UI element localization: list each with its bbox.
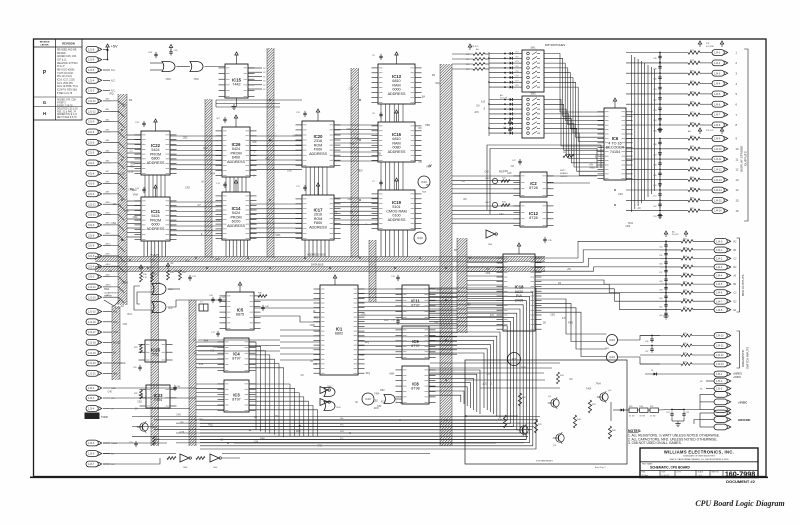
scattered junction dots bbox=[121, 57, 661, 444]
svg-text:C40: C40 bbox=[150, 259, 155, 262]
svg-text:R18: R18 bbox=[466, 64, 469, 66]
svg-text:CR8: CR8 bbox=[515, 85, 519, 87]
display strobe rows 1-8 bbox=[626, 50, 738, 133]
wires RAM to data bus bbox=[305, 230, 407, 257]
svg-text:3J1-8: 3J1-8 bbox=[88, 234, 95, 237]
svg-text:7404: 7404 bbox=[212, 346, 218, 349]
svg-text:10K: 10K bbox=[180, 422, 185, 425]
svg-text:D-16-797: D-16-797 bbox=[662, 475, 670, 477]
left connector tags group 3 bbox=[85, 385, 118, 467]
svg-text:IC16: IC16 bbox=[392, 132, 402, 137]
svg-text:IC19: IC19 bbox=[392, 200, 402, 205]
svg-text:PB6: PB6 bbox=[131, 162, 136, 165]
svg-text:2=1: 2=1 bbox=[699, 475, 702, 477]
svg-text:+5V: +5V bbox=[292, 135, 297, 138]
svg-text:ADDRESS: ADDRESS bbox=[227, 224, 245, 228]
svg-text:1J1-15: 1J1-15 bbox=[88, 311, 96, 314]
svg-text:R/W: R/W bbox=[296, 430, 301, 433]
svg-text:DELETED C25 5.2V: DELETED C25 5.2V bbox=[57, 109, 78, 111]
svg-text:470: 470 bbox=[490, 314, 495, 317]
svg-text:CR2: CR2 bbox=[132, 189, 137, 192]
svg-text:7404: 7404 bbox=[154, 398, 162, 402]
svg-text:47 1W: 47 1W bbox=[650, 416, 656, 418]
svg-text:3J1-10: 3J1-10 bbox=[88, 214, 96, 217]
svg-text:IC25: IC25 bbox=[151, 347, 161, 352]
svg-text:3401 N. CALIFORNIA CHICAGO,: 3401 N. CALIFORNIA CHICAGO, ILL. 60618 E… bbox=[670, 458, 730, 461]
svg-text:1J4-10: 1J4-10 bbox=[714, 148, 722, 151]
gate IC10 round A bbox=[418, 176, 430, 194]
capacitor C15 bbox=[188, 275, 196, 281]
svg-text:1J4-21: 1J4-21 bbox=[716, 345, 724, 348]
gate round 7404 bbox=[362, 393, 374, 405]
IC25 555 timer bbox=[133, 340, 173, 371]
svg-text:VMA: VMA bbox=[275, 234, 281, 237]
svg-text:1J3-5: 1J3-5 bbox=[88, 442, 95, 445]
svg-text:+5V: +5V bbox=[111, 45, 118, 49]
svg-text:8T98: 8T98 bbox=[411, 387, 419, 391]
svg-text:H: H bbox=[43, 111, 46, 116]
svg-text:VMA: VMA bbox=[133, 194, 139, 197]
svg-text:CR2: CR2 bbox=[287, 169, 292, 172]
IC22 5424 PROM 6800 bbox=[135, 119, 177, 175]
pull-up resistors R16-R19 bbox=[466, 44, 489, 71]
svg-text:GROUND: GROUND bbox=[738, 418, 750, 422]
IC12 8T28 bus driver bbox=[514, 202, 554, 227]
svg-text:1J4-6: 1J4-6 bbox=[714, 103, 721, 106]
svg-text:1J4-8: 1J4-8 bbox=[716, 309, 723, 312]
svg-text:R17: R17 bbox=[466, 59, 469, 61]
frame bottom heavy line bbox=[30, 476, 768, 478]
left CPU-control connector tags group 2 bbox=[86, 309, 126, 377]
svg-text:2J1-9: 2J1-9 bbox=[88, 121, 95, 124]
svg-text:BA: BA bbox=[129, 99, 133, 102]
svg-text:CR2: CR2 bbox=[348, 198, 353, 201]
svg-text:DIAGNOSTIC: DIAGNOSTIC bbox=[741, 350, 745, 367]
gate round 7408 right of PIA bbox=[508, 353, 527, 370]
svg-text:1J3-7: 1J3-7 bbox=[88, 463, 95, 466]
svg-text:1J4-2: 1J4-2 bbox=[716, 258, 723, 261]
svg-text:SWITCH INPUTS: SWITCH INPUTS bbox=[746, 347, 750, 369]
svg-text:470: 470 bbox=[562, 317, 567, 320]
svg-text:CB2: CB2 bbox=[349, 88, 354, 91]
resistor R22 bbox=[134, 344, 142, 353]
svg-text:1J1-3: 1J1-3 bbox=[88, 90, 95, 93]
+5V pullups strobe group 2 bbox=[688, 128, 724, 134]
inverter pair bottom left bbox=[167, 454, 240, 469]
svg-text:IC24: IC24 bbox=[609, 338, 615, 342]
svg-text:IC4: IC4 bbox=[233, 351, 240, 356]
OR gate 7432 B bbox=[190, 62, 225, 82]
svg-text:CB2: CB2 bbox=[137, 400, 142, 403]
svg-text:CR2: CR2 bbox=[174, 270, 179, 273]
svg-text:R12: R12 bbox=[128, 313, 133, 316]
svg-text:IRQ: IRQ bbox=[109, 93, 113, 96]
svg-text:R11 470: R11 470 bbox=[471, 46, 479, 48]
svg-text:160-7998: 160-7998 bbox=[725, 470, 755, 479]
svg-text:CR3: CR3 bbox=[515, 61, 519, 63]
data bus horizontal band bbox=[95, 267, 545, 272]
svg-text:R12: R12 bbox=[199, 363, 204, 366]
svg-text:+5V: +5V bbox=[589, 164, 594, 167]
svg-text:IC5: IC5 bbox=[237, 307, 244, 312]
svg-text:VMA: VMA bbox=[426, 165, 432, 168]
svg-text:1J4-3: 1J4-3 bbox=[716, 266, 723, 269]
svg-text:1J4-6: 1J4-6 bbox=[716, 292, 723, 295]
svg-text:1J4-7: 1J4-7 bbox=[714, 114, 721, 117]
display strobe rows 9-16 bbox=[626, 136, 739, 219]
svg-text:CR7: CR7 bbox=[515, 80, 519, 82]
svg-text:IC6: IC6 bbox=[612, 136, 619, 141]
bus staircase buffers to lower right bbox=[200, 288, 536, 449]
svg-text:R's 4.7K: R's 4.7K bbox=[500, 98, 508, 100]
resistor R33 enable bbox=[560, 152, 574, 178]
svg-text:7404: 7404 bbox=[374, 393, 380, 396]
svg-text:IRQ: IRQ bbox=[314, 317, 318, 320]
wires PROM columns vertical bbox=[144, 175, 248, 257]
IC20 2316 ROM F000 bbox=[296, 109, 341, 167]
svg-text:R56: R56 bbox=[640, 406, 643, 408]
svg-text:4J1-5: 4J1-5 bbox=[88, 183, 95, 186]
svg-text:1J5-1: 1J5-1 bbox=[716, 373, 723, 376]
IC9 8T97 buffer bbox=[396, 326, 436, 359]
svg-text:R30, 31 & R40, 74: R30, 31 & R40, 74 bbox=[57, 111, 77, 113]
capacitor C45 bbox=[218, 297, 226, 303]
svg-text:C37: C37 bbox=[645, 351, 648, 353]
vertical bus band x152 bbox=[151, 254, 159, 446]
svg-text:1J4-13: 1J4-13 bbox=[714, 179, 722, 182]
svg-text:IC15: IC15 bbox=[232, 77, 242, 82]
svg-text:CB2: CB2 bbox=[111, 222, 116, 225]
svg-text:C52: C52 bbox=[123, 323, 128, 326]
buffer gate 4049 right bbox=[486, 230, 497, 246]
capacitor C60 bbox=[173, 385, 181, 391]
svg-text:CR2: CR2 bbox=[515, 56, 519, 58]
svg-text:ALL: ALL bbox=[500, 94, 503, 97]
svg-text:7404: 7404 bbox=[595, 383, 601, 386]
svg-text:IC29 P.N. REV 5&8: IC29 P.N. REV 5&8 bbox=[57, 90, 77, 92]
svg-text:SW1: SW1 bbox=[531, 48, 537, 50]
IC2 8T28 bus driver bbox=[514, 172, 554, 197]
svg-text:REV ECO #2066: REV ECO #2066 bbox=[57, 70, 75, 72]
wires central band to IC2/IC12 bbox=[452, 176, 520, 223]
resistor R26 bbox=[134, 390, 142, 399]
svg-text:1J1-8: 1J1-8 bbox=[88, 48, 95, 51]
svg-text:BA: BA bbox=[123, 103, 127, 106]
svg-text:47 1W: 47 1W bbox=[640, 416, 646, 418]
svg-text:7404: 7404 bbox=[210, 173, 216, 176]
svg-text:C60: C60 bbox=[659, 298, 662, 300]
IC26 5424 PROM 6400 bbox=[216, 115, 257, 177]
drawing border frame bbox=[34, 39, 767, 477]
svg-text:1J4-12: 1J4-12 bbox=[714, 169, 722, 172]
svg-text:R/W: R/W bbox=[437, 288, 442, 291]
svg-text:1J4-2: 1J4-2 bbox=[714, 62, 721, 65]
svg-text:1J3-2: 1J3-2 bbox=[88, 387, 95, 390]
svg-text:IC24: IC24 bbox=[609, 355, 615, 359]
svg-text:N.C: N.C bbox=[111, 464, 115, 466]
svg-text:2J1-10: 2J1-10 bbox=[88, 100, 96, 103]
svg-text:BA: BA bbox=[422, 96, 426, 99]
svg-text:1J1-21: 1J1-21 bbox=[88, 372, 96, 375]
IC4 8T97 buffer bbox=[218, 338, 256, 372]
svg-text:470 PRD: 470 PRD bbox=[706, 46, 715, 48]
svg-text:CJ: CJ bbox=[734, 293, 737, 295]
crystal Y1 bbox=[199, 302, 208, 312]
svg-text:ADDRESS: ADDRESS bbox=[309, 226, 327, 230]
svg-text:T0608: T0608 bbox=[111, 443, 118, 445]
svg-text:Back Pag. 2: Back Pag. 2 bbox=[595, 467, 607, 469]
svg-text:IC23: IC23 bbox=[154, 393, 164, 398]
BCD output rows bbox=[659, 238, 736, 317]
svg-text:74154: 74154 bbox=[610, 150, 620, 154]
svg-text:C40: C40 bbox=[108, 391, 113, 394]
bottom labels wire bundle bbox=[340, 417, 345, 440]
gate IC10 round B bbox=[414, 232, 426, 244]
capacitor C47 bbox=[512, 159, 522, 165]
svg-text:CB2: CB2 bbox=[486, 272, 491, 275]
svg-text:C67 & L1: C67 & L1 bbox=[57, 60, 67, 62]
svg-text:CB2: CB2 bbox=[373, 399, 378, 402]
svg-text:R16: R16 bbox=[466, 54, 469, 56]
svg-text:1J4-9: 1J4-9 bbox=[714, 138, 721, 141]
revision table bbox=[34, 39, 83, 120]
svg-text:CR1: CR1 bbox=[515, 52, 519, 54]
wires IC4/IC3 inputs bbox=[196, 342, 224, 410]
svg-text:IC19, IC17, 2128,: IC19, IC17, 2128, bbox=[57, 80, 75, 82]
svg-text:C61: C61 bbox=[659, 307, 662, 309]
svg-text:G: G bbox=[43, 100, 46, 105]
left I/O connector tags group 1 bbox=[86, 46, 125, 303]
svg-text:1J4-1: 1J4-1 bbox=[716, 249, 723, 252]
capacitor C46 bbox=[261, 305, 269, 311]
svg-text:1J1-5: 1J1-5 bbox=[88, 69, 95, 72]
svg-text:1J3-6: 1J3-6 bbox=[88, 453, 95, 456]
enable loop wiring bbox=[487, 145, 601, 214]
CPU address/data comb to buses bbox=[358, 289, 457, 354]
svg-text:CB2: CB2 bbox=[550, 314, 555, 317]
svg-text:NOTES:: NOTES: bbox=[628, 429, 641, 433]
svg-text:BJ: BJ bbox=[734, 250, 737, 252]
svg-text:C56: C56 bbox=[659, 264, 662, 266]
svg-text:1J4-5: 1J4-5 bbox=[716, 283, 723, 286]
svg-text:10K: 10K bbox=[377, 153, 382, 156]
svg-text:C36: C36 bbox=[645, 341, 648, 343]
svg-text:ENABLE: ENABLE bbox=[560, 172, 569, 175]
svg-text:ADDRESS: ADDRESS bbox=[388, 150, 406, 154]
svg-text:R12: R12 bbox=[185, 260, 190, 263]
svg-text:8T97: 8T97 bbox=[411, 344, 419, 348]
svg-text:LED2: LED2 bbox=[485, 202, 491, 204]
small reference designator labels bbox=[108, 74, 642, 447]
capacitor C18 bbox=[391, 318, 400, 324]
svg-text:+5VDC: +5VDC bbox=[738, 401, 747, 405]
svg-text:P REF A 21-78: P REF A 21-78 bbox=[57, 92, 73, 95]
svg-text:3J1-4: 3J1-4 bbox=[88, 265, 95, 268]
svg-text:1J4-3: 1J4-3 bbox=[714, 72, 721, 75]
svg-text:PB6: PB6 bbox=[124, 210, 129, 213]
svg-text:1J4-11: 1J4-11 bbox=[714, 158, 722, 161]
svg-text:W. Berg: W. Berg bbox=[642, 474, 649, 477]
IC17 2616 ROM F800 bbox=[296, 183, 341, 240]
svg-text:2J1-6: 2J1-6 bbox=[88, 141, 95, 144]
svg-text:SYSTEM RESET: SYSTEM RESET bbox=[536, 461, 554, 463]
svg-text:A12: A12 bbox=[481, 100, 486, 103]
svg-text:SCHEMATIC, CPU BOARD: SCHEMATIC, CPU BOARD bbox=[650, 466, 690, 470]
svg-text:IC9: IC9 bbox=[412, 339, 419, 344]
svg-text:IC3: IC3 bbox=[233, 392, 240, 397]
svg-text:R57: R57 bbox=[650, 406, 653, 408]
power resistor R55 bbox=[629, 406, 638, 418]
svg-text:C59: C59 bbox=[659, 289, 662, 291]
svg-text:VMA: VMA bbox=[389, 373, 395, 376]
svg-text:IC12: IC12 bbox=[529, 211, 539, 216]
svg-text:1J1-20: 1J1-20 bbox=[88, 362, 96, 365]
svg-text:IC14: IC14 bbox=[232, 206, 242, 211]
svg-text:CR2: CR2 bbox=[317, 444, 322, 447]
svg-text:LETT.: LETT. bbox=[677, 472, 682, 474]
svg-text:10K: 10K bbox=[486, 268, 491, 271]
svg-text:CR2: CR2 bbox=[347, 128, 352, 131]
svg-text:A15: A15 bbox=[475, 111, 480, 114]
svg-text:1J4-20: 1J4-20 bbox=[716, 335, 724, 338]
svg-text:ADDED 2YR, C68: ADDED 2YR, C68 bbox=[57, 98, 76, 101]
svg-text:470: 470 bbox=[361, 314, 366, 317]
svg-text:PART NO: PART NO bbox=[712, 471, 720, 474]
ground tags bbox=[694, 410, 750, 430]
+5V supply arrow bbox=[106, 44, 118, 60]
svg-text:1J1-12: 1J1-12 bbox=[88, 286, 96, 289]
wires IC bus interconnect left bbox=[127, 125, 378, 237]
wires IC15 bottom to ROM area bbox=[216, 100, 302, 107]
svg-text:RES: RES bbox=[568, 322, 573, 325]
svg-text:IC26: IC26 bbox=[232, 142, 242, 147]
svg-text:SCALE: SCALE bbox=[698, 471, 704, 474]
PIA input bus band bbox=[457, 238, 467, 333]
svg-text:4.7K: 4.7K bbox=[128, 171, 133, 174]
svg-text:DJ: DJ bbox=[734, 267, 737, 269]
svg-text:DOCUMENT #2: DOCUMENT #2 bbox=[726, 479, 755, 484]
svg-text:PA4: PA4 bbox=[204, 340, 209, 343]
svg-text:1J4-1: 1J4-1 bbox=[714, 52, 721, 55]
svg-text:C54: C54 bbox=[659, 247, 662, 249]
diagnostic gates IC24 bbox=[605, 335, 660, 365]
LED2 with resistor R11 bbox=[485, 201, 510, 207]
BCD common ground bbox=[663, 241, 668, 319]
svg-text:8T28: 8T28 bbox=[529, 216, 537, 220]
svg-text:7432: 7432 bbox=[605, 348, 609, 350]
vertical bus band x205 bbox=[205, 99, 212, 258]
svg-text:DJ: DJ bbox=[734, 301, 737, 303]
svg-text:IC18: IC18 bbox=[515, 285, 525, 290]
svg-text:ADDRESS: ADDRESS bbox=[388, 92, 406, 96]
svg-text:WILLIAMS ELECTRONICS, INC.: WILLIAMS ELECTRONICS, INC. bbox=[664, 449, 734, 454]
svg-text:CLEAR/RESET: CLEAR/RESET bbox=[104, 291, 119, 294]
address bus horizontal band bbox=[95, 257, 545, 262]
capacitor C19 bbox=[391, 275, 400, 281]
+5VDC supply tags bbox=[672, 391, 747, 412]
vertical bus band x358 bbox=[351, 68, 359, 258]
svg-text:1K: 1K bbox=[113, 203, 116, 206]
svg-text:N.C.: N.C. bbox=[111, 70, 116, 72]
gate 7408 A bbox=[324, 386, 335, 397]
svg-text:C58: C58 bbox=[659, 281, 662, 283]
power resistor R56 bbox=[640, 406, 649, 418]
IC16 6810 RAM 0080 bbox=[372, 110, 422, 162]
connector T0608 block bbox=[85, 413, 100, 420]
svg-text:2J1-5: 2J1-5 bbox=[88, 152, 95, 155]
svg-text:BCD OUTPUTS: BCD OUTPUTS bbox=[741, 274, 745, 296]
svg-text:IC2: IC2 bbox=[530, 181, 537, 186]
svg-text:PB6: PB6 bbox=[260, 438, 265, 441]
svg-text:R REF 5: R REF 5 bbox=[57, 103, 67, 105]
svg-text:C40: C40 bbox=[499, 213, 504, 216]
svg-text:+5VDC: +5VDC bbox=[733, 376, 741, 379]
svg-text:1J4-8: 1J4-8 bbox=[714, 124, 721, 127]
svg-text:8T97: 8T97 bbox=[232, 398, 240, 402]
strobe group 2 cap common bbox=[657, 139, 662, 219]
title block bbox=[640, 448, 758, 479]
svg-text:1K: 1K bbox=[355, 401, 358, 404]
svg-text:1J1-4: 1J1-4 bbox=[88, 79, 95, 82]
svg-text:1J1-16: 1J1-16 bbox=[88, 321, 96, 324]
svg-text:SW1: SW1 bbox=[104, 288, 110, 291]
svg-text:CR6: CR6 bbox=[515, 76, 519, 78]
svg-text:ADDRESS: ADDRESS bbox=[227, 160, 245, 164]
svg-text:47 1W: 47 1W bbox=[629, 416, 635, 418]
vertical bus band x267 bbox=[267, 48, 274, 258]
svg-text:3J1-9: 3J1-9 bbox=[88, 224, 95, 227]
svg-text:1J4-22: 1J4-22 bbox=[716, 354, 724, 357]
svg-text:1J1-17: 1J1-17 bbox=[88, 331, 96, 334]
svg-text:A12: A12 bbox=[265, 157, 270, 160]
capacitor C64 bbox=[148, 52, 158, 58]
svg-text:1K: 1K bbox=[201, 180, 204, 183]
svg-text:4J1-8: 4J1-8 bbox=[88, 172, 95, 175]
central data bus wide band bbox=[440, 64, 452, 446]
svg-text:7408: 7408 bbox=[214, 258, 220, 261]
svg-text:+5V: +5V bbox=[216, 219, 221, 222]
svg-text:1J4-0: 1J4-0 bbox=[716, 240, 723, 243]
vertical bus band x189 lower bbox=[189, 300, 196, 446]
svg-text:ADDRESS BUS: ADDRESS BUS bbox=[307, 253, 326, 257]
supply ground symbol bbox=[672, 418, 684, 427]
svg-text:C40: C40 bbox=[484, 171, 489, 174]
svg-text:470: 470 bbox=[130, 166, 135, 169]
svg-text:CR2: CR2 bbox=[503, 170, 508, 173]
vertical bus band x370 lower bbox=[369, 240, 376, 302]
svg-text:CB2: CB2 bbox=[120, 173, 125, 176]
svg-text:IC20: IC20 bbox=[314, 134, 324, 139]
IC15 7442 decoder bbox=[219, 52, 267, 110]
+5V pullups strobe group 1 bbox=[698, 41, 723, 48]
svg-text:VMA: VMA bbox=[590, 167, 596, 170]
svg-text:DIP SWITCHES: DIP SWITCHES bbox=[545, 43, 565, 47]
wires ROM column vertical bbox=[306, 104, 403, 195]
svg-text:R19: R19 bbox=[466, 69, 469, 71]
svg-text:2N4403: 2N4403 bbox=[150, 427, 158, 429]
PIA outputs staircase to BCD rows bbox=[535, 241, 660, 356]
svg-text:PA0: PA0 bbox=[340, 417, 343, 420]
resistor R35 bbox=[258, 293, 267, 298]
IC8 8T98 buffer bbox=[396, 366, 436, 404]
svg-text:ADDRESS: ADDRESS bbox=[147, 227, 165, 231]
svg-text:C52: C52 bbox=[483, 383, 488, 386]
system reset circuit box bbox=[465, 360, 627, 464]
svg-text:VMA: VMA bbox=[359, 354, 365, 357]
svg-text:R's 470: R's 470 bbox=[672, 234, 678, 236]
svg-text:8T97: 8T97 bbox=[411, 304, 419, 308]
svg-text:CR2: CR2 bbox=[618, 193, 623, 196]
